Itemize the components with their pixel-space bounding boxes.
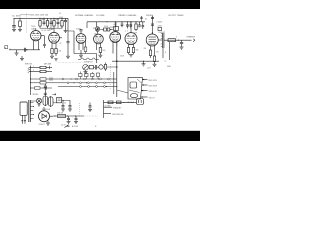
standby cap bbox=[88, 103, 92, 112]
jack 1 bbox=[28, 67, 30, 70]
svg-text:12AX7: 12AX7 bbox=[31, 27, 36, 30]
OT secondary return wires bbox=[163, 42, 170, 63]
value label caps pair bbox=[125, 31, 128, 33]
ground under filter caps bbox=[64, 25, 68, 33]
svg-text:.02: .02 bbox=[145, 19, 148, 21]
value label 1500 cathode V2 bbox=[58, 51, 62, 53]
label filter bbox=[61, 125, 66, 127]
second bias vertical bbox=[113, 72, 117, 94]
jack 2 bbox=[28, 71, 30, 72]
svg-text:SPEAKER: SPEAKER bbox=[187, 36, 196, 39]
tremolo lamp bbox=[99, 65, 103, 69]
svg-text:2: 2 bbox=[33, 70, 34, 72]
value label 100K plate V2 bbox=[55, 19, 60, 21]
capacitor C4 bbox=[57, 18, 60, 25]
pilot lamp bbox=[36, 98, 41, 106]
svg-text:820: 820 bbox=[103, 50, 106, 52]
resistor R8 bbox=[135, 21, 137, 31]
dashed vertical divider mid bbox=[109, 64, 111, 90]
wire OT secondary bbox=[164, 39, 192, 41]
svg-text:ss: ss bbox=[165, 61, 167, 63]
svg-text:4: 4 bbox=[176, 37, 177, 39]
ground switch box bbox=[57, 97, 62, 102]
screen resistor V7 bbox=[149, 50, 159, 58]
switch labels bbox=[42, 109, 50, 111]
value label speaker jack bbox=[176, 37, 177, 39]
tremolo resistor bbox=[89, 66, 93, 69]
value label R8 bbox=[138, 27, 142, 29]
svg-text:GRN 6.3V: GRN 6.3V bbox=[149, 91, 158, 93]
ground under V2 bbox=[50, 56, 54, 58]
T1 lead 4 bbox=[141, 96, 156, 99]
value label treble bbox=[104, 26, 109, 28]
cathode resistor V6b bbox=[132, 48, 134, 55]
svg-text:7025: 7025 bbox=[110, 27, 116, 29]
coupling cap top right bbox=[140, 16, 147, 22]
tremolo pot bbox=[83, 65, 89, 71]
cathode resistor V4 bbox=[99, 48, 101, 56]
T1 label bbox=[127, 102, 135, 104]
label bypass bbox=[59, 43, 61, 45]
svg-text:20: 20 bbox=[59, 13, 61, 15]
filter choke resistor bbox=[58, 115, 66, 118]
svg-text:YEL 5V: YEL 5V bbox=[149, 97, 156, 99]
top letterbox bar bbox=[0, 0, 200, 9]
value labels row bbox=[41, 30, 50, 32]
wire B+ bus 2 bbox=[87, 21, 145, 23]
wire ground line bbox=[104, 114, 124, 116]
ground under R1 bbox=[18, 30, 22, 32]
stub R5 down bbox=[61, 26, 63, 28]
label 20 stack bbox=[60, 26, 62, 28]
wire tremolo to bus bbox=[103, 66, 117, 67]
label speed bbox=[33, 94, 40, 96]
plate cap V4 bbox=[96, 28, 99, 32]
filter cap 1 bbox=[67, 116, 71, 124]
svg-text:470: 470 bbox=[156, 52, 159, 54]
title OUTPUT bbox=[168, 14, 184, 17]
title NORMAL CHANNEL bbox=[75, 14, 94, 17]
capacitor C10 bbox=[121, 21, 124, 27]
svg-text:1: 1 bbox=[33, 66, 34, 68]
value label 100K plate V1 bbox=[41, 19, 46, 21]
AC line vertical bbox=[103, 100, 105, 118]
wire B+ mid rail bbox=[112, 60, 159, 62]
value label grid V7 bbox=[144, 48, 147, 50]
dashed divider bottom bbox=[79, 103, 81, 117]
filter cap 2 bbox=[74, 116, 78, 124]
value label bass bbox=[113, 24, 116, 26]
wire bias to T1 bbox=[117, 90, 128, 93]
svg-text:STANDBY: STANDBY bbox=[113, 106, 122, 109]
AC resistor 2 bbox=[117, 101, 125, 104]
AC plug bbox=[137, 99, 144, 105]
fuse holder bbox=[43, 96, 48, 106]
resistor grid stopper bbox=[158, 26, 163, 31]
oscillator board row bbox=[79, 72, 100, 80]
note mark bottom margin bbox=[65, 125, 98, 128]
svg-text:.02: .02 bbox=[59, 43, 61, 45]
resistor 68K jack2 bbox=[30, 70, 52, 72]
ground under C1 bbox=[12, 30, 16, 32]
value label pot 1M bbox=[94, 34, 97, 36]
label 12AX7 above T2 bbox=[49, 28, 54, 31]
T1 lead 2 bbox=[142, 84, 158, 87]
resistor 68K jack1 bbox=[30, 66, 52, 69]
svg-text:OUTPUT TRANS: OUTPUT TRANS bbox=[168, 14, 184, 17]
junction dots filter bbox=[54, 115, 55, 116]
capacitor C3 bbox=[50, 18, 53, 25]
svg-text:VOLUME: VOLUME bbox=[96, 15, 105, 17]
capacitor across speaker bbox=[180, 40, 183, 47]
svg-text:RED 325V: RED 325V bbox=[149, 80, 158, 82]
tube V4 12AX7 bbox=[93, 28, 104, 50]
AC resistor bbox=[108, 101, 113, 104]
speaker arrow bbox=[187, 36, 196, 42]
tremolo cap bbox=[94, 65, 99, 70]
label inputs bbox=[25, 64, 33, 66]
cathode resistor V2a bbox=[51, 49, 53, 57]
value label bias bbox=[64, 103, 66, 105]
bias cap 2 bbox=[68, 100, 72, 111]
ground under rectifier bbox=[46, 121, 50, 126]
tone capacitor block bbox=[110, 22, 119, 32]
ground under V2b bbox=[54, 59, 57, 61]
grid feed line V5 bbox=[151, 16, 163, 35]
label rung2 bbox=[33, 70, 34, 72]
capacitor C6 bbox=[126, 21, 129, 28]
cathode resistor V6a bbox=[127, 48, 129, 55]
svg-text:A-12-64: A-12-64 bbox=[72, 125, 78, 128]
label 450V stack bbox=[59, 17, 64, 19]
title SPEED bbox=[146, 15, 153, 17]
svg-text:12AX7: 12AX7 bbox=[49, 28, 54, 31]
junction dot mid rail bbox=[116, 60, 118, 62]
ground drop mid rail bbox=[142, 61, 146, 66]
svg-text:8: 8 bbox=[165, 52, 166, 54]
svg-text:.1 .1: .1 .1 bbox=[125, 31, 128, 33]
svg-text:10K 1W: 10K 1W bbox=[57, 113, 63, 115]
value label mid rail bbox=[120, 56, 125, 58]
svg-text:INTENSITY: INTENSITY bbox=[84, 62, 94, 64]
value label choke bbox=[57, 113, 63, 115]
dashed chassis divider bbox=[26, 14, 28, 34]
stub R3 down bbox=[47, 26, 49, 28]
resistor R2 bbox=[39, 18, 41, 28]
power switch bbox=[48, 96, 53, 107]
T1 lead 3 bbox=[141, 90, 157, 93]
ground under speaker cap bbox=[180, 47, 184, 49]
wire switch out bbox=[53, 102, 57, 104]
label 450V bbox=[133, 33, 138, 35]
capacitor C8 bbox=[138, 22, 141, 26]
transformer core laminations bbox=[29, 100, 31, 122]
wire with crossover hops bbox=[78, 58, 99, 59]
fuse line up bbox=[44, 84, 47, 96]
bias cap 1 bbox=[61, 100, 65, 111]
tube V3 12AX7 bbox=[76, 29, 87, 54]
stub C4 down bbox=[57, 26, 59, 29]
resistor R4 bbox=[53, 18, 55, 28]
value labels above bus bbox=[30, 14, 49, 16]
tube V6 12AX7 bbox=[125, 21, 137, 47]
arrow mark bbox=[53, 93, 57, 95]
junction dot secondary bbox=[178, 40, 179, 41]
tube V2 12AX7 bbox=[49, 28, 62, 48]
power transformer T1 outline bbox=[128, 78, 143, 99]
junction dot bus2 bbox=[106, 21, 107, 22]
tone stack wire bbox=[100, 29, 102, 31]
value label trem bbox=[84, 62, 94, 64]
heater wire 3 bbox=[58, 86, 117, 88]
capacitor C2 bbox=[43, 18, 46, 26]
tube V1 12AX7 bbox=[31, 26, 45, 41]
ground under V6 bbox=[129, 55, 133, 57]
tremolo series resistor bbox=[104, 63, 106, 72]
value label 20uF 450V bbox=[59, 13, 61, 15]
wire plate feed corner bbox=[74, 31, 97, 63]
wire lower link bbox=[40, 27, 62, 29]
svg-text:100K 100K 100K 56K: 100K 100K 100K 56K bbox=[30, 14, 49, 16]
potentiometer VOLUME bbox=[95, 22, 99, 31]
wire standby bbox=[104, 106, 123, 109]
resistor R3 bbox=[46, 18, 48, 28]
dotted trace bbox=[58, 62, 84, 64]
label 68K bbox=[44, 64, 52, 66]
ground stub left mid bbox=[20, 56, 24, 61]
svg-text:NORMAL CHANNEL: NORMAL CHANNEL bbox=[75, 14, 94, 17]
ground under V7 bbox=[153, 64, 157, 66]
wire input line bbox=[9, 41, 40, 50]
label AC bbox=[105, 105, 112, 108]
power transformer plug unit bbox=[20, 102, 27, 124]
AC line top wire bbox=[104, 101, 137, 103]
svg-text:20: 20 bbox=[60, 26, 62, 28]
svg-text:68K 68K: 68K 68K bbox=[44, 64, 52, 66]
heater wire 2 bbox=[30, 82, 117, 84]
stub C3 down bbox=[50, 26, 52, 29]
T1 lead 1 bbox=[142, 79, 158, 82]
plate cap V3 bbox=[80, 30, 83, 31]
heater wire 1 bbox=[30, 77, 117, 80]
bypass line x68 bbox=[67, 18, 75, 56]
svg-text:.1 400V: .1 400V bbox=[156, 22, 163, 24]
resistor R5 bbox=[61, 18, 63, 28]
title VOLUME bbox=[96, 15, 105, 17]
cathode resistor V7 bbox=[153, 56, 155, 64]
capacitor C5 filter bbox=[64, 18, 67, 24]
resistor R1 bbox=[19, 18, 22, 30]
tube V5 12AX7 bbox=[110, 21, 121, 53]
output transformer T2 core bbox=[161, 33, 164, 48]
input bus vertical bbox=[30, 66, 32, 96]
wire B+ bus top-left bbox=[14, 17, 69, 19]
capacitor C1 bbox=[12, 18, 16, 29]
cathode resistor V2b bbox=[55, 49, 57, 57]
wire B+ filter rail bbox=[53, 115, 84, 117]
label rung1 bbox=[33, 66, 34, 68]
svg-text:20 20: 20 20 bbox=[61, 125, 66, 127]
OT ground label bbox=[167, 66, 172, 68]
oscillator rung bbox=[30, 86, 52, 89]
svg-text:SPEED: SPEED bbox=[33, 94, 40, 96]
wire core to pilot bbox=[30, 100, 36, 102]
ground bypass x68 bbox=[66, 56, 70, 58]
wire to bias caps bbox=[62, 100, 71, 101]
resistor R6 bbox=[102, 28, 107, 31]
resistor output bbox=[168, 39, 176, 42]
heater loops bbox=[62, 78, 109, 87]
wire jumper above bus bbox=[20, 14, 30, 16]
svg-text:.047: .047 bbox=[113, 24, 116, 26]
input jack F bbox=[5, 46, 11, 51]
interstage caps V1-V2 bbox=[43, 36, 46, 48]
bias feed vertical bbox=[116, 42, 118, 97]
title VIBRATO CHANNEL bbox=[118, 14, 138, 17]
rectifier tube V8 5Y3GT bbox=[39, 107, 54, 126]
tube V7 6V6GT bbox=[146, 32, 166, 56]
bottom letterbox bar bbox=[0, 131, 200, 141]
core taps bbox=[30, 103, 34, 119]
svg-text:RED 325V: RED 325V bbox=[149, 85, 158, 87]
capacitor C9 bbox=[142, 22, 145, 29]
series cap input bbox=[24, 48, 27, 52]
value label cathode V6 bbox=[136, 50, 140, 52]
label mid rail bbox=[147, 68, 151, 70]
svg-text:INPUTS: INPUTS bbox=[25, 64, 33, 66]
svg-text:B+ 360V: B+ 360V bbox=[13, 16, 22, 18]
node B+ label bbox=[13, 16, 22, 18]
svg-text:5Y3GT: 5Y3GT bbox=[39, 124, 46, 126]
ground tremolo bbox=[84, 70, 88, 74]
svg-text:VIBRATO CHANNEL: VIBRATO CHANNEL bbox=[118, 14, 138, 17]
ground under V4 bbox=[98, 55, 102, 57]
resistor R7 bbox=[107, 28, 111, 31]
value label OT bbox=[165, 52, 166, 54]
svg-text:25: 25 bbox=[64, 103, 66, 105]
grid leak to ground bbox=[15, 50, 19, 55]
svg-text:GROUND SW: GROUND SW bbox=[112, 114, 124, 116]
capacitor C7 bbox=[130, 22, 133, 29]
ground under V3 bbox=[79, 50, 83, 57]
value label 820 cathode V4 bbox=[103, 50, 106, 52]
